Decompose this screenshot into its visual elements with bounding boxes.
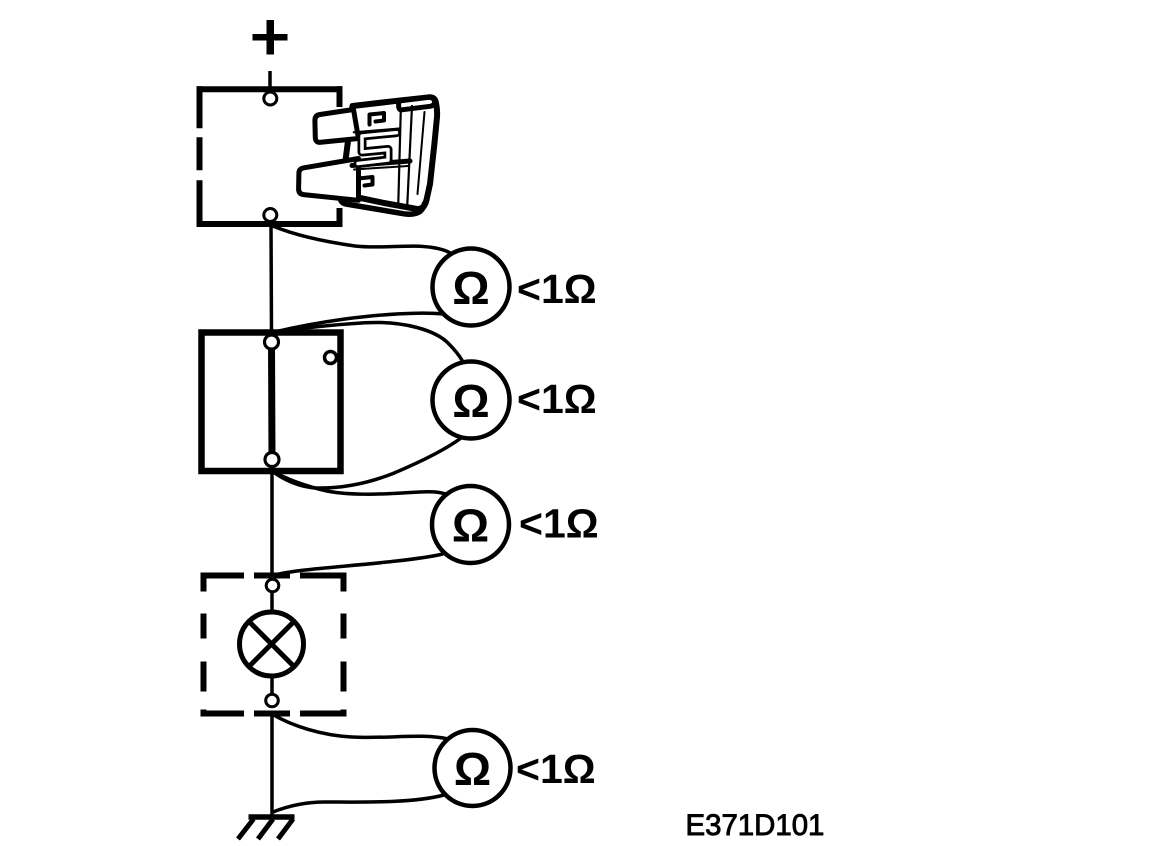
ohmmeter 2 [433,362,510,439]
switch bottom terminal [265,453,279,467]
svg-text:<1Ω: <1Ω [516,746,596,792]
battery positive terminal (+) [253,20,288,55]
switch contact bar [268,344,276,458]
svg-text:Ω: Ω [452,500,489,552]
switch (solid box) [202,333,341,472]
fuse holder bottom terminal [264,209,277,222]
wire fuse holder to switch [269,224,273,333]
ohmmeter 1 [433,249,510,326]
switch top terminal [265,335,279,349]
fuse holder (dashed box) [197,86,343,227]
ohmmeter 4 [435,730,511,806]
svg-text:Ω: Ω [452,375,489,427]
wire ohmmeter 1 to switch-top [273,313,444,332]
svg-text:<1Ω: <1Ω [517,376,597,422]
wire lamp box to ground [270,714,274,818]
wire switch-bottom to ohmmeter 3 [272,472,448,495]
svg-text:E371D101: E371D101 [686,809,825,842]
wire lamp-bottom to ohmmeter 4 [272,714,448,739]
wire ohmmeter 4 to ground [273,795,444,812]
svg-text:<1Ω: <1Ω [519,501,599,547]
svg-text:<1Ω: <1Ω [517,266,597,312]
ohmmeter 3 [432,486,509,563]
wire switch to lamp box [270,471,274,578]
lamp top terminal [266,579,279,592]
svg-text:Ω: Ω [452,262,489,314]
ground symbol [238,817,295,839]
wire switch-top to ohmmeter 2 [273,322,463,361]
lamp bottom terminal [266,694,279,707]
wire ohmmeter 2 to switch-bottom [272,437,462,488]
wire from + to fuse holder [268,71,272,88]
lamp unit (dashed box) [201,573,347,717]
switch auxiliary contact circle [325,352,337,364]
lamp internal wires [270,592,274,613]
svg-text:Ω: Ω [454,743,491,795]
lamp symbol (circle with X) [240,612,304,676]
wire ohmmeter 3 to lamp-top [272,554,443,576]
wire fuse-bottom to ohmmeter 1 [273,226,452,254]
fuse holder top terminal [264,92,277,105]
blade fuse (pictorial) [299,97,438,214]
